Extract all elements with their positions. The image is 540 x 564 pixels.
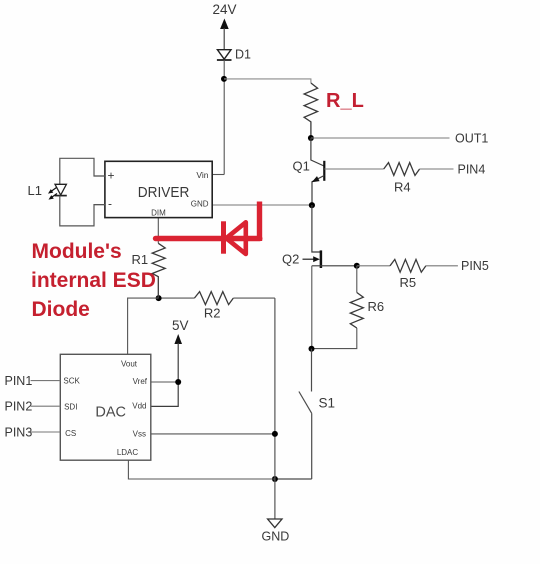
resistor R5	[357, 259, 458, 290]
wire GND rail (right of DAC)	[274, 298, 276, 519]
svg-text:Q2: Q2	[282, 252, 299, 267]
svg-text:Vin: Vin	[196, 170, 208, 180]
svg-text:DRIVER: DRIVER	[138, 184, 190, 201]
svg-text:R1: R1	[132, 252, 149, 267]
wire Vin stub into DRIVER	[212, 174, 224, 176]
svg-text:L1: L1	[28, 183, 42, 198]
node R6 bottom junction	[309, 346, 315, 352]
svg-text:R6: R6	[368, 299, 385, 314]
DRIVER module U1	[105, 161, 212, 217]
svg-text:PIN2: PIN2	[5, 400, 33, 414]
red annotation: module internal ESD diode	[156, 202, 260, 255]
svg-text:PIN1: PIN1	[5, 374, 33, 388]
ground symbol	[262, 519, 290, 544]
svg-text:internal ESD: internal ESD	[31, 269, 156, 292]
red annotation text	[31, 240, 156, 321]
svg-text:-: -	[108, 197, 112, 211]
wire DAC Vref to 5V rail	[151, 381, 178, 383]
node R1/R2/Vout junction	[156, 295, 162, 301]
svg-text:DAC: DAC	[95, 405, 126, 421]
svg-text:PIN5: PIN5	[461, 259, 489, 273]
wire DAC LDAC down and right to GND rail	[128, 460, 275, 479]
svg-text:SDI: SDI	[64, 403, 77, 412]
wire DRIVER GND to Q1 emitter	[212, 204, 312, 206]
wire junction to R_L top	[224, 79, 311, 83]
switch S1	[299, 349, 335, 479]
wire DRIVER plus pin stub	[94, 175, 105, 177]
DAC module U2	[60, 354, 151, 460]
svg-text:R2: R2	[204, 306, 221, 321]
svg-text:R_L: R_L	[326, 90, 364, 112]
svg-text:R5: R5	[400, 275, 417, 290]
node OUT1 junction	[308, 135, 314, 141]
5V supply arrow	[151, 318, 189, 406]
svg-text:Diode: Diode	[32, 298, 90, 321]
transistor Q2	[282, 205, 357, 349]
svg-text:Vss: Vss	[133, 430, 146, 439]
node Vref junction	[175, 379, 181, 385]
wire D1 to junction and down to Vin	[223, 60, 225, 175]
node Vss junction	[272, 431, 278, 437]
wire PIN2 to SDI	[31, 405, 61, 407]
svg-text:GND: GND	[191, 200, 209, 209]
LED L1	[28, 158, 105, 226]
svg-text:24V: 24V	[213, 2, 237, 17]
svg-text:SCK: SCK	[63, 377, 80, 386]
svg-text:Module's: Module's	[32, 240, 122, 263]
svg-text:R4: R4	[394, 180, 411, 195]
wire PIN1 to SCK	[31, 380, 61, 382]
power 24V supply arrow	[213, 2, 237, 50]
svg-text:S1: S1	[319, 396, 336, 411]
node Q1 emitter junction	[309, 202, 315, 208]
node junction top (24V rail)	[221, 76, 227, 82]
resistor R6	[312, 266, 385, 349]
resistor R_L	[304, 83, 318, 138]
svg-text:PIN3: PIN3	[5, 426, 33, 440]
resistor R4	[324, 163, 453, 195]
resistor R2	[159, 292, 275, 321]
svg-text:GND: GND	[262, 530, 290, 544]
diode D1	[217, 48, 251, 62]
node GND rail / LDAC junction	[272, 476, 278, 482]
resistor R1	[132, 218, 166, 299]
svg-text:DIM: DIM	[151, 209, 166, 218]
svg-text:LDAC: LDAC	[117, 448, 139, 457]
svg-text:D1: D1	[235, 48, 251, 62]
svg-text:CS: CS	[65, 429, 76, 438]
wire junction to DAC Vout	[128, 298, 159, 354]
svg-text:Vref: Vref	[133, 377, 148, 386]
svg-text:5V: 5V	[172, 318, 189, 333]
svg-text:PIN4: PIN4	[458, 163, 486, 177]
wire OUT1	[311, 137, 450, 139]
svg-text:Q1: Q1	[293, 159, 310, 174]
wire DAC Vss to GND rail	[151, 433, 275, 435]
wire PIN3 to CS	[31, 431, 61, 433]
transistor Q1	[293, 138, 325, 205]
node Q2 source junction	[354, 263, 360, 269]
svg-text:Vdd: Vdd	[132, 402, 146, 411]
svg-text:Vout: Vout	[121, 360, 138, 369]
wire DRIVER minus pin stub	[94, 204, 105, 206]
wire S1 bottom to GND rail	[275, 478, 312, 480]
svg-text:+: +	[108, 169, 115, 183]
svg-text:OUT1: OUT1	[455, 132, 488, 146]
